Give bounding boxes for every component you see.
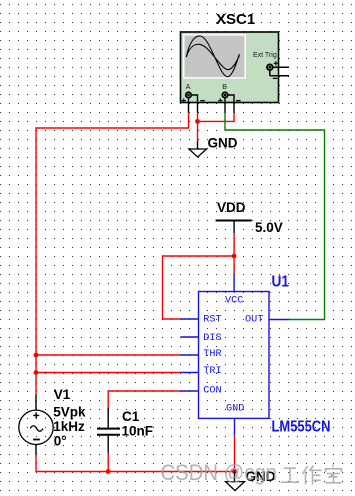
svg-text:CSDN @cgn: CSDN @cgn: [161, 460, 278, 485]
wire scope B- lead: [228, 95, 234, 113]
svg-text:OUT: OUT: [245, 314, 263, 325]
timer IC U1 LM555CN box: [199, 292, 270, 419]
wire B+ to OUT (green): [225, 113, 325, 320]
junction THR: [34, 353, 39, 358]
wire U1 GND to rail (red): [234, 435, 236, 471]
svg-text:VCC: VCC: [225, 295, 243, 306]
wire A+ to node THR (red): [36, 113, 189, 395]
svg-text:0°: 0°: [54, 434, 67, 449]
capacitor C1: [97, 407, 120, 453]
svg-text:10nF: 10nF: [122, 424, 154, 439]
Ext Trig pin stubs: [270, 67, 289, 76]
svg-text:5.0V: 5.0V: [255, 220, 283, 235]
svg-text:GND: GND: [208, 136, 238, 151]
svg-text:VDD: VDD: [217, 200, 246, 215]
AC voltage source V1: [19, 395, 53, 455]
wire TRI (red): [36, 372, 181, 374]
pin CON: [181, 385, 222, 396]
junction scope ground: [195, 119, 200, 124]
pin OUT: [245, 314, 289, 325]
wire V1 minus to bottom ground rail (red): [36, 455, 235, 472]
wire CON to C1 (red): [108, 391, 180, 407]
svg-text:A: A: [186, 84, 191, 91]
pin TRI: [181, 366, 222, 377]
wire scope A- lead: [191, 95, 197, 113]
svg-text:V1: V1: [54, 387, 71, 402]
svg-text:CON: CON: [203, 385, 221, 396]
svg-text:B: B: [222, 84, 227, 91]
wire scope A+ lead: [188, 98, 190, 113]
junction TRI: [34, 370, 39, 375]
ground symbol (scope): [189, 141, 207, 157]
junction C1 rail: [106, 469, 111, 474]
pin GND: [226, 404, 244, 436]
svg-text:Ext Trig: Ext Trig: [253, 52, 277, 59]
svg-text:XSC1: XSC1: [216, 11, 255, 28]
wire scope B+ lead: [224, 98, 226, 113]
wire B- to ground junction: [198, 113, 235, 122]
svg-text:C1: C1: [122, 409, 140, 424]
wire THR (red): [36, 354, 181, 356]
pin THR: [181, 349, 222, 360]
Ext Trig terminal: [267, 61, 278, 78]
svg-text:TRI: TRI: [203, 366, 221, 377]
ground symbol (bottom): [226, 472, 245, 491]
oscilloscope XSC1 body: [181, 32, 279, 103]
svg-text:LM555CN: LM555CN: [272, 419, 331, 436]
pin RST: [181, 314, 222, 325]
svg-text:1kHz: 1kHz: [53, 419, 85, 434]
svg-text:DIS: DIS: [203, 333, 221, 344]
junction VDD node: [232, 254, 237, 259]
power symbol VDD: [216, 221, 252, 234]
pin VCC: [225, 274, 243, 306]
svg-text:THR: THR: [203, 349, 221, 360]
XSC1 screen waveform B: [186, 44, 239, 69]
channel A terminal: [182, 84, 205, 103]
wire VDD to VCC (red): [233, 233, 235, 274]
wire A- to ground junction: [197, 113, 199, 141]
wire VDD node to RST (red): [163, 256, 235, 319]
svg-text:RST: RST: [203, 314, 221, 325]
svg-text:5Vpk: 5Vpk: [53, 405, 86, 420]
svg-text:U1: U1: [272, 273, 290, 290]
pin DIS: [181, 333, 222, 344]
XSC1 screen waveform A: [186, 36, 239, 77]
channel B terminal: [218, 84, 240, 103]
watermark CSDN: [161, 460, 343, 485]
svg-text:GND: GND: [226, 404, 244, 415]
junction bottom ground: [232, 469, 237, 474]
wire C1 bottom to rail (red): [107, 453, 109, 472]
